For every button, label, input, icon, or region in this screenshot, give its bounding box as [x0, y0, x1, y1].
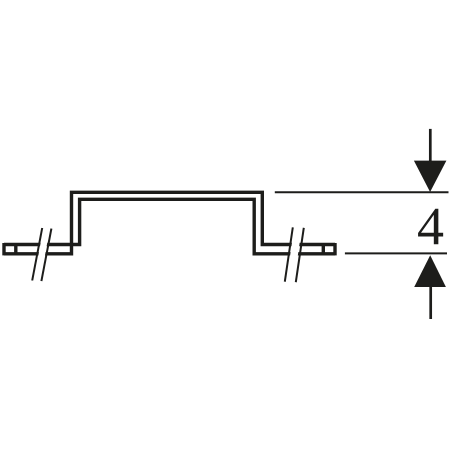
- profile upper surface polyline (left bar top, left wall inner, top bar inner, right wall inner, right bar bottom): [4, 199, 335, 254]
- bottom arrow stem: [429, 287, 432, 319]
- bottom arrow head (upward triangle): [414, 255, 446, 287]
- left end cap: [2, 243, 5, 255]
- left break mark line 2: [41, 229, 51, 282]
- top arrow head (downward triangle): [414, 161, 447, 192]
- top arrow stem: [429, 129, 432, 162]
- right break gap eraser: [286, 227, 302, 283]
- bottom dimension extension line: [345, 252, 447, 254]
- top dimension extension line: [275, 191, 449, 193]
- right end cap: [333, 243, 336, 255]
- left break gap eraser: [34, 226, 51, 282]
- profile lower surface polyline (left bar bottom, left wall outer, top bar outer, right wall outer, right bar top): [4, 192, 335, 254]
- left end divider: [14, 245, 17, 254]
- svg-text:4: 4: [417, 196, 444, 256]
- right break mark line 1: [285, 227, 293, 281]
- left break mark line 1: [32, 228, 42, 281]
- right break mark line 2: [296, 228, 304, 282]
- right end divider: [322, 245, 325, 254]
